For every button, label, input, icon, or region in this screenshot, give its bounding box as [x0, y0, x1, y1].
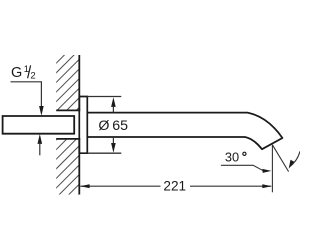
svg-text:221: 221 [163, 179, 186, 194]
svg-text:Ø 65: Ø 65 [98, 118, 128, 134]
tail of up arrow [39, 144, 41, 155]
wall hatching (upper section) [0, 0, 206, 200]
G1/2 leader line [40, 82, 42, 107]
svg-text:2: 2 [30, 71, 35, 82]
221 dimension line left segment [80, 185, 160, 187]
dia65 top arrow [111, 97, 116, 107]
escutcheon flange [79, 97, 87, 154]
fraction slash [28, 65, 31, 78]
supply pipe G1/2 [3, 116, 75, 134]
221 dimension line right segment [190, 185, 271, 187]
dia65 bottom arrow [111, 143, 116, 153]
dia65 bottom extension line [87, 152, 121, 154]
spout tip vertical extension line [271, 145, 273, 193]
G1/2 underline [11, 81, 43, 83]
degree symbol [243, 152, 246, 155]
30 deg leader [221, 165, 264, 170]
221 left arrow [80, 184, 90, 188]
G1/2 arrow (down at pipe top) [39, 106, 44, 116]
angle arc with arrow [290, 151, 300, 167]
G 1/2 label [11, 64, 36, 82]
spout body [87, 113, 282, 150]
dia65 top extension line [87, 96, 121, 98]
svg-text:G: G [11, 65, 22, 81]
wall face line (upper) [78, 55, 80, 110]
svg-text:30: 30 [225, 149, 239, 164]
wall face line (lower) [78, 139, 80, 195]
wall hole top edge [56, 109, 80, 111]
221 right arrow [262, 184, 272, 188]
arrow up at pipe bottom [38, 134, 43, 144]
wall hole bottom edge [56, 138, 80, 140]
30 deg angled line [272, 145, 288, 172]
30 deg leader arrow [262, 169, 271, 173]
